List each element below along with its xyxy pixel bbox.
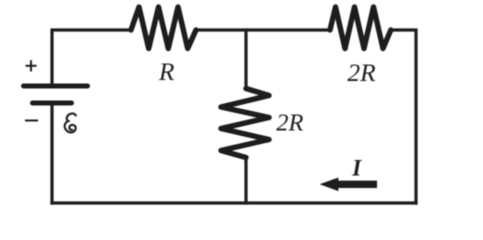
resistor 2R (top right) (330, 7, 391, 49)
resistor R (131, 7, 196, 49)
battery top plate (long, positive) (24, 84, 88, 89)
plus sign (26, 60, 37, 71)
battery bottom plate (short, negative) (33, 101, 72, 106)
svg-text:2R: 2R (276, 110, 303, 137)
wire middle branch upper (244, 30, 247, 89)
EMF script-E symbol (65, 113, 76, 132)
svg-text:R: R (158, 57, 175, 86)
resistor 2R (middle vertical) (221, 89, 269, 158)
svg-text:2R: 2R (347, 58, 376, 87)
wire bottom (52, 201, 416, 204)
wire top-middle segment (196, 28, 330, 31)
minus sign (26, 120, 37, 122)
battery EMF source: wire from bottom plate down (50, 106, 53, 204)
wire top-right corner and right side (391, 30, 416, 203)
wire top-left segment (52, 30, 131, 84)
current arrow I (320, 178, 377, 192)
wire middle branch lower (244, 158, 247, 204)
svg-text:I: I (351, 155, 362, 180)
